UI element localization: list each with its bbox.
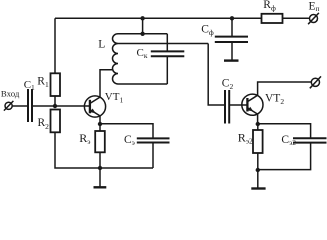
resistor Re2 — [253, 130, 263, 153]
inductor L coil — [113, 34, 119, 84]
wire Re bottom to ground rail — [99, 152, 101, 168]
wire VT2 emitter down — [257, 114, 259, 124]
capacitor Ce — [137, 138, 170, 142]
transistor VT2 — [242, 94, 263, 115]
wire emitter to Re2 — [257, 124, 259, 130]
wire coil second turn output line — [118, 43, 208, 45]
resistor R2 — [51, 110, 61, 133]
resistor Rf — [262, 14, 283, 23]
wire R2 bottom to ground rail — [55, 132, 153, 168]
wire VT2 collector to output terminal — [258, 82, 312, 95]
capacitor C2 — [225, 90, 229, 124]
node rail Cf junction — [230, 16, 234, 20]
ground under Cf — [224, 59, 239, 61]
terminal input — [5, 102, 12, 109]
wire VT1 emitter down — [99, 116, 101, 124]
node VT1 emitter junction — [98, 122, 102, 126]
wire Ce bottom to rail corner — [152, 143, 154, 169]
wire output drop to C2 — [208, 44, 224, 106]
capacitor Cf — [231, 18, 233, 36]
ground right — [257, 170, 259, 188]
node ground rail left junction — [98, 166, 102, 170]
svg-text:L: L — [98, 39, 105, 51]
wire tank to supply rail — [142, 18, 144, 34]
resistor R1 — [51, 73, 61, 96]
wire C2 to VT2 base — [229, 104, 247, 106]
wire top supply rail — [55, 17, 262, 19]
wire emitter node to Ce2 — [258, 124, 311, 138]
wire R1 top vertical — [54, 18, 56, 73]
node VT2 emitter junction — [256, 122, 260, 126]
capacitor C1 — [28, 89, 32, 122]
wire emitter to Re — [99, 124, 101, 131]
ground left — [99, 168, 101, 187]
transistor VT1 — [84, 96, 105, 117]
wire emitter node to Ce — [100, 124, 153, 139]
wire Ce2 bottom back to ground node — [258, 143, 311, 170]
resistor Re — [95, 131, 105, 152]
terminal output — [311, 78, 319, 86]
node rail tank junction — [140, 16, 144, 20]
wire C1 to VT1 base — [32, 105, 90, 107]
node right ground junction — [256, 168, 260, 172]
wire Rf to Ep terminal — [283, 17, 310, 19]
svg-text:Вход: Вход — [1, 89, 20, 99]
node tank top junction — [140, 32, 144, 36]
node base divider junction — [53, 104, 57, 108]
terminal Ep — [310, 15, 318, 23]
wire VT1 collector up to coil tap — [100, 70, 113, 97]
capacitor Ce2 — [293, 138, 327, 142]
wire input to C1 — [12, 105, 27, 107]
capacitor Ck — [166, 34, 168, 51]
wire Re2 bottom — [257, 153, 259, 170]
wire tank top line — [118, 33, 167, 35]
wire tank bottom line — [118, 83, 167, 85]
wire R1 bottom — [54, 96, 56, 106]
